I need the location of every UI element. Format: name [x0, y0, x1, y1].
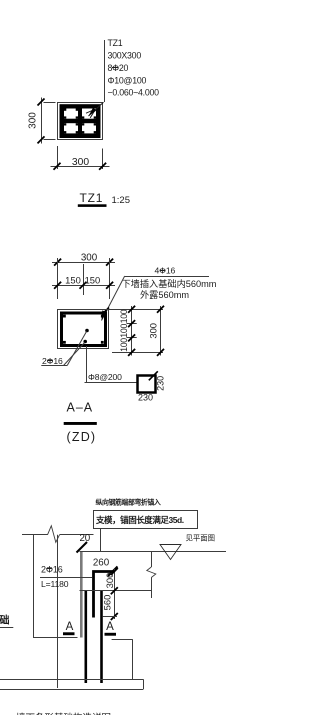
- dim 300 right ticks: [157, 306, 164, 313]
- svg-text:300: 300: [81, 252, 98, 263]
- level triangle: [160, 545, 181, 560]
- label 2phi16 leader 2: [64, 343, 85, 366]
- svg-text:300: 300: [104, 573, 115, 589]
- label 2phi16 leader 1: [67, 332, 86, 366]
- dimension 300 top: dim line: [52, 262, 115, 264]
- svg-text:300X300: 300X300: [108, 51, 142, 61]
- slab bottom line: [0, 689, 143, 691]
- level line: [80, 551, 227, 553]
- wall inner left vertical: [57, 535, 59, 688]
- witness stub mid2: [127, 337, 137, 339]
- witness bottom right of section: [112, 352, 163, 354]
- svg-text:230: 230: [155, 376, 165, 391]
- concrete core window TR: [82, 109, 96, 119]
- svg-text:560: 560: [101, 595, 112, 611]
- dimension 300 right: dim line: [160, 306, 162, 356]
- dimension 150 150: tick middle: [80, 282, 87, 289]
- wall bottom line: [80, 590, 152, 592]
- stirrup label stem: [86, 346, 88, 382]
- svg-text:100: 100: [119, 309, 129, 323]
- svg-text:20: 20: [80, 533, 91, 544]
- svg-text:A: A: [106, 621, 114, 633]
- witness line middle: [83, 264, 85, 295]
- slab right edge: [143, 679, 145, 689]
- dimension 150 150: tick left: [54, 282, 61, 289]
- column TZ1 concrete outline: [58, 103, 103, 140]
- witness line right: [109, 258, 111, 299]
- dimension 300 top: tick left: [54, 259, 61, 266]
- svg-text:−0.060~4.000: −0.060~4.000: [108, 88, 160, 98]
- dimension 300 left: dim line: [41, 98, 43, 144]
- witness line left: [57, 258, 59, 299]
- svg-text:300: 300: [72, 157, 89, 168]
- wall break top line left: [22, 534, 48, 536]
- dim 100 ticks: [128, 306, 135, 356]
- svg-text:100: 100: [119, 324, 129, 338]
- svg-text:150: 150: [65, 275, 81, 286]
- dim 100 texts: [119, 309, 129, 352]
- svg-text:Φ8@200: Φ8@200: [88, 372, 122, 382]
- concrete core window TL: [64, 109, 78, 119]
- tick at 590.7: [111, 587, 118, 594]
- right boundary vertical upper: [151, 552, 153, 568]
- wall face grey band: [80, 552, 83, 638]
- svg-text:TZ1: TZ1: [80, 191, 104, 205]
- wall break zigzag: [48, 526, 60, 543]
- leader arrowhead: [102, 310, 107, 320]
- dimension 300 left of TZ1: witness top: [44, 102, 56, 104]
- rebar grade tick on phi of 4phi16: [160, 270, 166, 272]
- dowel bar right: [100, 591, 103, 683]
- dimension 20 tick: [77, 542, 88, 553]
- dimension 300 bottom: tick left: [54, 163, 61, 170]
- dimension 150 150: dim line: [52, 285, 115, 287]
- rebar hook bar 2phi16: [94, 572, 113, 618]
- rebar center dots 2phi16: [85, 329, 89, 333]
- label phi8@200 leader line: [85, 382, 138, 384]
- dimension 300 bottom: tick right: [99, 163, 106, 170]
- svg-text:支模，锚固长度满足35d.: 支模，锚固长度满足35d.: [95, 515, 184, 525]
- pedestal top right line: [112, 639, 133, 641]
- rebar grade tick on phi: [46, 568, 51, 570]
- svg-text:260: 260: [93, 557, 110, 568]
- dimension 300 bottom of TZ1: witness left: [57, 146, 59, 169]
- pedestal right vertical: [132, 639, 134, 679]
- dimension 300 top: tick right: [106, 259, 113, 266]
- dimension 300 bottom: witness right: [102, 149, 104, 170]
- svg-text:下墙插入基础内560mm: 下墙插入基础内560mm: [122, 278, 217, 289]
- svg-text:230: 230: [138, 393, 153, 403]
- wire leader vertical TZ1 note: [104, 40, 106, 102]
- stirrup ring TZ1 (filled band): [60, 104, 101, 138]
- right boundary break: [147, 567, 156, 578]
- rebar grade tick on phi of 2phi16: [47, 360, 52, 362]
- section mark A right underline: [105, 633, 117, 636]
- svg-text:300: 300: [28, 112, 39, 129]
- label TZ1 note text block: [108, 38, 160, 98]
- witness stub mid1: [127, 323, 137, 325]
- witness top right of section: [109, 309, 163, 311]
- rebar grade tick on phi of 8phi20: [112, 67, 118, 69]
- dimension 100x3: dim line: [131, 306, 133, 356]
- foundation top left line: [33, 637, 78, 639]
- title TZ1 underline: [78, 204, 107, 207]
- svg-text:150: 150: [85, 275, 101, 286]
- dimension 300 bottom: dim line: [51, 166, 110, 168]
- dimension 300 left: witness bottom: [44, 139, 56, 141]
- witness at 616.5: [103, 616, 117, 618]
- arrow leader into section with burst: [89, 102, 104, 116]
- svg-text:基础: 基础: [0, 614, 10, 627]
- dimension 300 left: tick bottom: [38, 136, 45, 143]
- wall outer left vertical: [33, 535, 35, 637]
- note 4phi16 leader underline: [125, 276, 209, 278]
- slab top line: [0, 679, 143, 681]
- note 4phi16 leader diagonal: [102, 276, 125, 321]
- stirrup detail square 230x230: [138, 376, 156, 393]
- section mark A left underline: [63, 632, 75, 635]
- svg-text:2Φ16: 2Φ16: [41, 564, 63, 574]
- tick at 616.5: [111, 613, 118, 620]
- section A-A stirrup ring: [62, 313, 106, 346]
- svg-text:A–A: A–A: [67, 401, 94, 415]
- dimension 300/560: dim line: [114, 569, 116, 619]
- svg-text:TZ1: TZ1: [108, 38, 123, 48]
- dowel bar left: [85, 591, 88, 683]
- svg-text:L=1180: L=1180: [41, 579, 69, 589]
- section A-A concrete outline: [58, 310, 109, 349]
- dimension 300 left: tick top: [38, 99, 45, 106]
- svg-text:100: 100: [119, 338, 129, 352]
- dimension 260 tick right: [108, 567, 118, 577]
- label foundation underline: [0, 627, 13, 629]
- svg-text:外露560mm: 外露560mm: [140, 289, 189, 300]
- svg-text:(ZD): (ZD): [67, 430, 97, 444]
- svg-text:300: 300: [147, 323, 158, 339]
- leader slash at square edge: [102, 308, 109, 315]
- svg-text:见平面图: 见平面图: [186, 534, 216, 543]
- title A-A underline: [64, 422, 97, 425]
- tick at 571.5: [111, 568, 118, 575]
- right boundary vertical lower: [151, 578, 153, 599]
- concrete core window BR: [82, 123, 96, 133]
- rebar blobs at window corners: [64, 109, 96, 134]
- stirrup detail corner slash: [149, 371, 158, 380]
- wall break top line right: [60, 534, 94, 536]
- concrete core window BL: [64, 123, 78, 133]
- note leader vertical: [100, 529, 102, 552]
- note box: [94, 511, 198, 529]
- label 2phi16 underline: [41, 365, 67, 367]
- svg-text:纵向钢筋端部弯折锚入: 纵向钢筋端部弯折锚入: [96, 498, 161, 507]
- svg-text:1:25: 1:25: [112, 195, 131, 206]
- svg-text:A: A: [66, 621, 74, 633]
- label leader line: [40, 577, 92, 579]
- svg-text:Φ10@100: Φ10@100: [108, 76, 147, 86]
- dimension 150 150: tick right: [106, 282, 113, 289]
- rebar corner dots: [63, 315, 104, 344]
